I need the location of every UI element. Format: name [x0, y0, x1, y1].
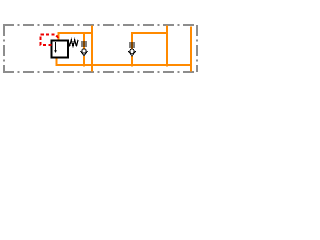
wire: check valve V2 branch corner and run to riser B	[132, 33, 167, 49]
wire: valve bottom port down then bottom bus to the right	[57, 58, 192, 66]
wire: vertical riser B (border to bottom bus)	[166, 26, 168, 67]
subsystem boundary (dash-dot frame)	[3, 25, 197, 72]
wire: vertical riser at node A (border to bottom bus, pierces to frame)	[91, 26, 93, 72]
check valve V1 spring	[81, 42, 87, 46]
relief valve R1 spring	[68, 40, 78, 47]
wire: vertical riser C at right (border to border)	[190, 27, 192, 72]
check valve V2 ball	[130, 49, 134, 53]
relief valve R1 body	[52, 41, 69, 58]
wire: valve top port up and right to node A	[59, 33, 93, 41]
relief valve R1 internal flow arrow	[55, 42, 57, 50]
relief valve R1 pilot line (dashed red)	[41, 35, 59, 46]
check valve V1 seat	[80, 51, 88, 56]
check valve V1 ball	[82, 49, 86, 53]
check valve V2 seat	[128, 51, 136, 56]
wire: branch down through check valve V1	[83, 33, 85, 48]
check valve V2 spring	[129, 43, 135, 47]
